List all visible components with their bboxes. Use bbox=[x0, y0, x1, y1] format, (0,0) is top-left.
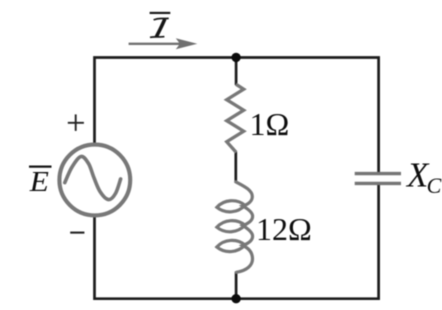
inductor 12 ohm coil: right-side wire (top hook, inter-loop arcs, bottom hook) bbox=[216, 182, 252, 272]
svg-text:1Ω: 1Ω bbox=[250, 106, 290, 142]
inductor petal loop 3 bbox=[216, 239, 245, 252]
plus sign of source bbox=[68, 114, 84, 130]
node junction dot bottom bbox=[231, 294, 240, 303]
label I with overbar (current) bbox=[150, 13, 171, 37]
current arrow bbox=[129, 38, 198, 49]
ac source circle bbox=[59, 145, 130, 216]
inductor petal loop 2 bbox=[216, 220, 245, 233]
label 1 ohm bbox=[250, 106, 290, 142]
ac source sine wave bbox=[65, 156, 121, 199]
label E with overbar (source voltage) bbox=[29, 165, 52, 198]
svg-text:E: E bbox=[29, 165, 49, 198]
wire middle branch between resistor and inductor bbox=[234, 152, 237, 183]
wire middle branch upper stub (dot to resistor) bbox=[235, 57, 238, 85]
capacitor bottom plate bbox=[355, 182, 401, 185]
minus sign of source bbox=[70, 232, 84, 234]
svg-text:12Ω: 12Ω bbox=[256, 211, 312, 247]
svg-text:C: C bbox=[427, 173, 442, 198]
inductor petal loop 1 bbox=[216, 200, 245, 213]
resistor 1 ohm zigzag bbox=[227, 84, 244, 152]
label XC (capacitive reactance) bbox=[405, 156, 442, 199]
capacitor top plate bbox=[355, 172, 401, 175]
label 12 ohm bbox=[256, 211, 312, 247]
wire top from left corner to right corner bbox=[95, 58, 379, 173]
node junction dot top bbox=[231, 53, 240, 62]
wire bottom from left corner to right corner bbox=[95, 185, 379, 299]
wire middle branch lower stub (inductor to dot) bbox=[235, 272, 238, 299]
